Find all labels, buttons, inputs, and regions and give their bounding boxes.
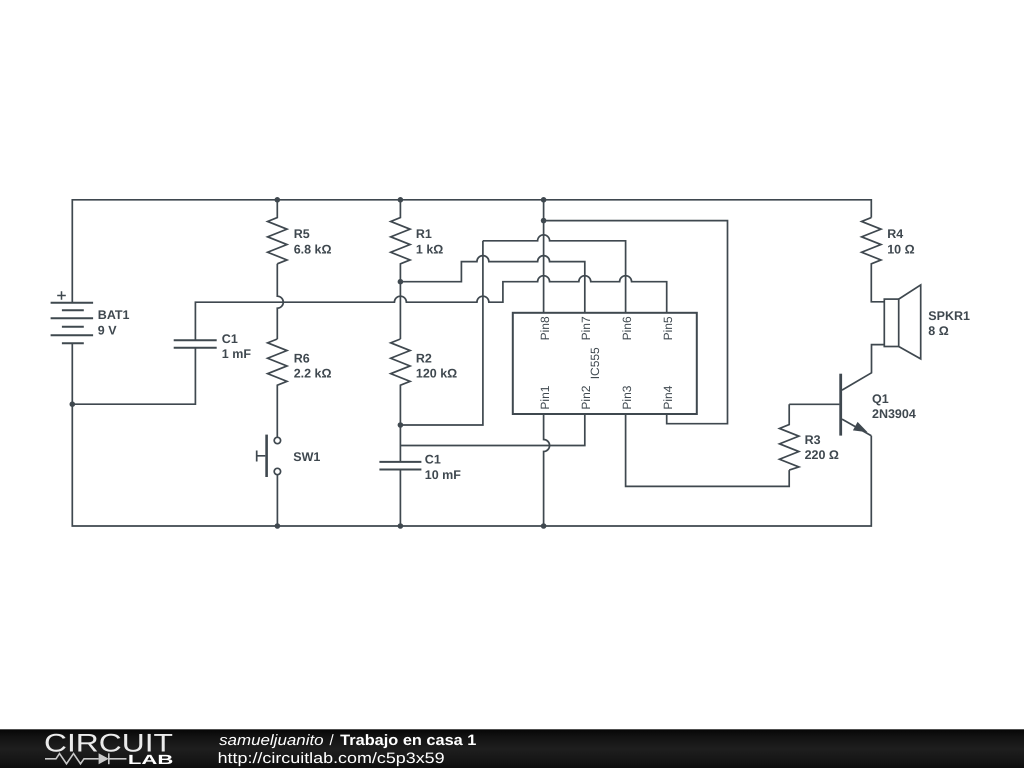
svg-text:120 kΩ: 120 kΩ — [416, 367, 457, 381]
svg-text:220 Ω: 220 Ω — [805, 448, 839, 462]
svg-text:R3: R3 — [805, 433, 821, 447]
IC555 chip body — [513, 313, 697, 414]
wire top rail with left drop to battery and right drop to R4 — [72, 200, 871, 303]
svg-text:Pin7: Pin7 — [579, 316, 593, 340]
transistor Q1 emitter arrow — [853, 422, 868, 432]
resistor R6 — [268, 339, 287, 437]
resistor R4 — [862, 218, 885, 302]
svg-text:Pin3: Pin3 — [620, 385, 634, 409]
resistor R5 — [268, 200, 287, 264]
wire Pin6 net: corner 482.9 down to R2/C1 junction — [483, 235, 626, 313]
junction Pin8 column / Pin4 branch — [541, 218, 547, 224]
wire Pin3 to R3 bottom — [626, 414, 790, 486]
svg-text:2N3904: 2N3904 — [872, 407, 916, 421]
transistor Q1 collector — [842, 345, 884, 391]
svg-text:samueljuanito: samueljuanito — [219, 732, 324, 749]
junction top rail / Pin8 column — [541, 197, 547, 203]
battery BAT1 — [51, 303, 94, 344]
svg-text:C1: C1 — [222, 332, 238, 346]
svg-text:BAT1: BAT1 — [98, 308, 130, 322]
svg-text:R6: R6 — [294, 351, 310, 365]
junction bottom rail / Pin1 — [541, 523, 547, 529]
svg-text:8 Ω: 8 Ω — [928, 324, 948, 338]
svg-text:Pin2: Pin2 — [579, 385, 593, 409]
svg-text:6.8 kΩ: 6.8 kΩ — [294, 242, 332, 256]
svg-text:10 mF: 10 mF — [425, 468, 461, 482]
transistor Q1 emitter — [842, 419, 871, 436]
svg-text:R5: R5 — [294, 227, 310, 241]
resistor R3 — [780, 404, 799, 470]
wire SW1 to bottom rail — [276, 475, 278, 526]
resistor R2 — [391, 339, 410, 462]
wire C1 10mF bottom to rail — [399, 470, 401, 527]
junction top rail / R5 — [275, 197, 281, 203]
junction bottom rail / SW1 — [275, 523, 281, 529]
svg-text:SW1: SW1 — [293, 450, 320, 464]
svg-text:1 kΩ: 1 kΩ — [416, 242, 443, 256]
svg-text:Pin5: Pin5 — [661, 316, 675, 340]
resistor R1 — [391, 200, 410, 282]
junction battery minus / C1 bottom — [70, 401, 76, 407]
switch SW1 — [274, 437, 280, 443]
wire vertical 482.9 down to y425 then left to junction — [400, 241, 483, 425]
svg-text:SPKR1: SPKR1 — [928, 309, 970, 323]
svg-text:R1: R1 — [416, 227, 432, 241]
svg-text:2.2 kΩ: 2.2 kΩ — [294, 367, 332, 381]
svg-text:9 V: 9 V — [98, 324, 117, 338]
svg-text:Pin8: Pin8 — [538, 316, 552, 340]
svg-text:R2: R2 — [416, 351, 432, 365]
svg-text:IC555: IC555 — [588, 347, 602, 379]
svg-text:LAB: LAB — [128, 752, 173, 767]
capacitor C1 10mF — [379, 462, 421, 470]
svg-text:http://circuitlab.com/c5p3x59: http://circuitlab.com/c5p3x59 — [218, 750, 445, 767]
junction top rail / R1 — [398, 197, 404, 203]
wire C1 bottom to battery junction — [72, 348, 195, 404]
wire C1 top net: from C1 up, right along y=302 with hops, jog up at 502.9 to Pin5 — [195, 276, 666, 341]
footer logo squiggle resistor-diode — [45, 753, 127, 764]
svg-text:Pin6: Pin6 — [620, 316, 634, 340]
svg-text:R4: R4 — [887, 227, 903, 241]
capacitor C1 1mF — [174, 340, 217, 348]
svg-text:10 Ω: 10 Ω — [887, 242, 914, 256]
battery plus sign — [57, 291, 66, 300]
speaker SPKR1 — [884, 299, 898, 346]
junction bottom rail / C1 10mF — [398, 523, 404, 529]
svg-text:Pin1: Pin1 — [538, 385, 552, 409]
wire bottom rail from battery down-left corner to Q1 emitter column — [72, 343, 871, 526]
footer logo diode triangle — [99, 753, 109, 764]
wire Pin8/Pin4 net via 727.5 — [544, 221, 728, 424]
wire R1/R2 junction through y302 to R2 — [399, 282, 401, 339]
wire R1 junction to Pin7 (jog up at 461.4) — [400, 256, 584, 313]
wire Pin8 column from top rail to chip — [543, 200, 545, 313]
wire R5 to R6 with hop over y302 wire — [277, 264, 283, 339]
junction R1 bottom / R2 top / Pin7 wire — [398, 279, 404, 285]
junction R2 bottom / C1 10mF / Pin6 net — [398, 422, 404, 428]
wire Pin1 to bottom rail with hop — [544, 414, 550, 526]
svg-text:Q1: Q1 — [872, 392, 889, 406]
svg-text:C1: C1 — [425, 453, 441, 467]
svg-text:1 mF: 1 mF — [222, 347, 252, 361]
svg-text:Trabajo en casa 1: Trabajo en casa 1 — [340, 732, 476, 749]
transistor Q1 bar — [839, 374, 842, 436]
wire Pin2 to R2/C1 column — [400, 414, 584, 446]
wire Q1 base — [789, 403, 839, 405]
svg-text:Pin4: Pin4 — [661, 385, 675, 409]
